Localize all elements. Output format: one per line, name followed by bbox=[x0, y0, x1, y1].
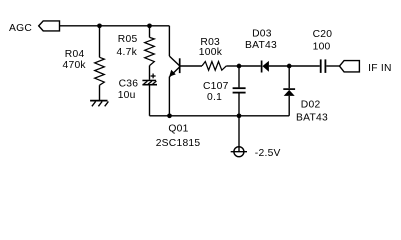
wire R05 top lead bbox=[149, 26, 151, 38]
svg-text:Q01: Q01 bbox=[168, 124, 188, 135]
svg-text:0.1: 0.1 bbox=[207, 92, 222, 103]
svg-text:10u: 10u bbox=[118, 90, 136, 101]
wire node to C107 bbox=[238, 66, 240, 87]
wire C20 to IF IN port bbox=[326, 65, 339, 67]
wire node to C20 bbox=[289, 65, 320, 67]
capacitor C107 bbox=[233, 88, 246, 92]
svg-text:2SC1815: 2SC1815 bbox=[156, 138, 201, 149]
svg-text:-2.5V: -2.5V bbox=[255, 148, 281, 159]
wire node to D03 bbox=[239, 65, 261, 67]
wire C36 to bottom rail bbox=[149, 86, 151, 116]
resistor R05 bbox=[145, 37, 155, 65]
diode D03 bbox=[262, 61, 269, 73]
svg-text:BAT43: BAT43 bbox=[296, 112, 328, 123]
svg-text:R05: R05 bbox=[118, 34, 138, 45]
node junction bottom rail at C107 bbox=[237, 113, 242, 118]
wire Q01 emitter bbox=[168, 77, 170, 116]
svg-text:IF IN: IF IN bbox=[368, 63, 392, 74]
svg-text:AGC: AGC bbox=[9, 23, 32, 34]
wire bottom rail bbox=[150, 115, 290, 117]
capacitor C20 bbox=[321, 59, 326, 73]
node junction D03/D02/C20 bbox=[287, 64, 292, 69]
svg-text:100: 100 bbox=[313, 42, 331, 53]
wire R05 to C36 bbox=[149, 66, 151, 80]
node junction top rail at R04 bbox=[97, 23, 102, 28]
wire Q01 collector bbox=[168, 26, 170, 56]
wire R03 to node bbox=[226, 65, 239, 67]
wire D03 to node bbox=[269, 65, 289, 67]
svg-text:C107: C107 bbox=[203, 81, 229, 92]
svg-text:BAT43: BAT43 bbox=[245, 40, 277, 51]
svg-text:100k: 100k bbox=[199, 47, 223, 58]
wire Q01 base to R03 bbox=[181, 65, 203, 67]
wire R04 top lead bbox=[99, 26, 101, 58]
wire R04 bottom lead bbox=[99, 85, 101, 100]
wire bottom rail to power symbol bbox=[238, 116, 240, 152]
node junction R03/C107/D03 bbox=[237, 64, 242, 69]
resistor R03 bbox=[202, 62, 226, 71]
svg-text:D03: D03 bbox=[252, 29, 272, 40]
capacitor C36 (polarized) bbox=[142, 74, 157, 86]
node junction bottom rail at emitter bbox=[167, 113, 172, 118]
ground bbox=[90, 101, 108, 107]
wire D02 top lead bbox=[288, 66, 290, 88]
wire C107 to bottom rail bbox=[238, 94, 240, 116]
svg-text:470k: 470k bbox=[63, 60, 87, 71]
power -2.5V symbol bbox=[231, 147, 247, 157]
node junction top rail at R05 bbox=[147, 23, 152, 28]
svg-text:D02: D02 bbox=[301, 100, 321, 111]
svg-text:4.7k: 4.7k bbox=[117, 47, 138, 58]
port IF IN bbox=[340, 61, 360, 72]
svg-text:R04: R04 bbox=[65, 49, 85, 60]
svg-text:C36: C36 bbox=[119, 78, 139, 89]
port AGC bbox=[39, 21, 60, 31]
wire top rail AGC to collector corner bbox=[60, 25, 170, 27]
transistor Q01 bbox=[169, 56, 180, 77]
diode D02 bbox=[283, 89, 295, 96]
wire D02 to bottom rail bbox=[288, 96, 290, 116]
svg-text:C20: C20 bbox=[313, 29, 333, 40]
resistor R04 bbox=[95, 57, 105, 85]
